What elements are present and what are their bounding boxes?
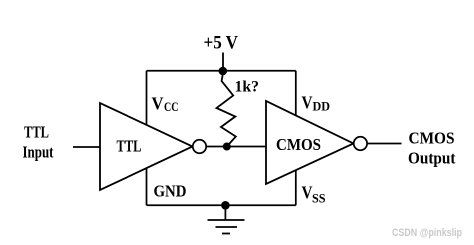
label CMOS inside U2: [276, 135, 321, 154]
wire right side (VDD pin down to VSS rail): [295, 71, 297, 206]
wire to ground: [224, 205, 226, 220]
svg-text:CMOS: CMOS: [409, 129, 455, 148]
node A (junction +5V / top rail / resistor): [219, 67, 228, 76]
value label 1k?: [235, 79, 260, 96]
svg-text:Output: Output: [408, 149, 456, 168]
pin label VCC: [152, 94, 179, 115]
svg-text:V: V: [152, 94, 164, 114]
wire U1 output to U2 input: [206, 146, 266, 148]
node C (ground junction on bottom rail): [221, 201, 230, 210]
svg-text:CMOS: CMOS: [276, 135, 321, 154]
wire CMOS output: [367, 143, 401, 145]
svg-text:DD: DD: [313, 100, 331, 114]
wire top rail (VCC to VDD): [147, 70, 296, 72]
label TTL inside U1: [117, 137, 142, 156]
watermark CSDN @pinkslip: [392, 227, 462, 239]
label TTL Input: [23, 123, 54, 162]
TTL inverter U1: [100, 103, 193, 190]
CMOS inverter U2: [266, 101, 354, 184]
svg-text:GND: GND: [154, 182, 187, 201]
svg-text:TTL: TTL: [117, 137, 142, 156]
svg-text:SS: SS: [312, 192, 326, 206]
svg-text:1k?: 1k?: [235, 79, 260, 96]
label CMOS Output: [408, 129, 456, 168]
svg-text:Input: Input: [23, 143, 54, 162]
supply label +5 V: [204, 33, 239, 54]
svg-text:CC: CC: [164, 100, 179, 114]
U2 output bubble: [354, 137, 367, 150]
pin label VDD: [302, 93, 331, 114]
svg-text:CSDN @pinkslip: CSDN @pinkslip: [392, 227, 462, 239]
node B (resistor bottom junction on signal wire): [223, 143, 231, 151]
svg-text:TTL: TTL: [24, 123, 49, 142]
U1 output bubble: [193, 140, 206, 153]
svg-text:V: V: [302, 93, 313, 113]
svg-text:V: V: [302, 183, 313, 203]
wire TTL input: [73, 146, 100, 148]
pin label VSS: [302, 183, 326, 206]
wire from +5V supply down to node A: [222, 53, 224, 72]
svg-text:+5 V: +5 V: [204, 33, 239, 54]
wire left side (VCC pin down to GND rail): [146, 71, 148, 206]
resistor R1 (1k pull-up): [217, 74, 236, 147]
wire bottom rail (GND to VSS): [147, 204, 296, 206]
ground: [208, 220, 245, 234]
pin label GND: [154, 182, 187, 201]
